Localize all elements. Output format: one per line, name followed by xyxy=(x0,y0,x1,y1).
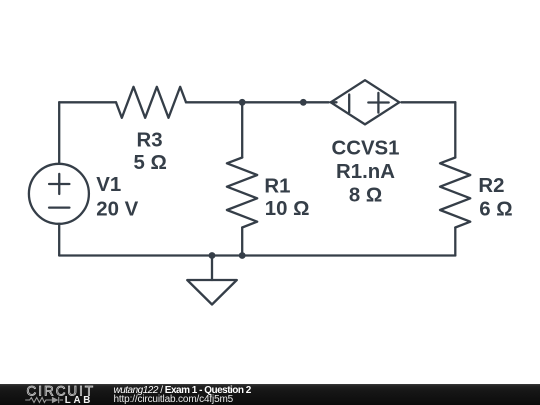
svg-text:8 Ω: 8 Ω xyxy=(349,184,382,206)
ground xyxy=(187,280,237,305)
node junction dot C xyxy=(239,252,246,259)
wire V1 top stem xyxy=(58,102,60,164)
CCVS1 plus sign xyxy=(368,93,388,113)
svg-text:6 Ω: 6 Ω xyxy=(479,198,512,220)
logo circuit glyph xyxy=(25,397,63,403)
resistor R2 xyxy=(440,158,470,228)
resistor R1 xyxy=(227,158,257,228)
svg-text:CCVS1: CCVS1 xyxy=(332,138,400,160)
node junction dot B xyxy=(300,99,307,106)
wire top middle xyxy=(186,101,329,103)
wire R2 bottom stem xyxy=(454,228,456,256)
svg-text:20 V: 20 V xyxy=(96,198,138,220)
node junction dot ground xyxy=(209,252,216,259)
dependent source CCVS1 diamond xyxy=(331,80,400,124)
V1 minus sign xyxy=(49,206,69,208)
wire bottom horizontal xyxy=(59,254,455,256)
svg-text:R1.nA: R1.nA xyxy=(336,161,395,183)
wire R1 bottom stem xyxy=(241,228,243,256)
svg-text:5 Ω: 5 Ω xyxy=(134,152,167,174)
resistor R3 xyxy=(116,87,186,118)
svg-text:R2: R2 xyxy=(478,175,504,197)
wire R2 top stem xyxy=(454,102,456,157)
svg-text:10 Ω: 10 Ω xyxy=(265,198,310,220)
wire ground stem xyxy=(211,256,213,281)
svg-text:R1: R1 xyxy=(264,175,290,197)
wire R1 top stem xyxy=(241,102,243,157)
wire top-right xyxy=(401,101,455,103)
voltage source V1 xyxy=(29,164,89,224)
wire top-left horizontal xyxy=(59,101,116,103)
CCVS1 minus sign xyxy=(331,101,337,103)
wire V1 bottom stem xyxy=(58,224,60,256)
CCVS1 divider bar xyxy=(348,95,350,113)
footer url xyxy=(114,394,234,405)
V1 plus sign xyxy=(49,174,69,194)
svg-text:R3: R3 xyxy=(137,129,163,151)
footer attribution text xyxy=(114,385,251,396)
footer bar xyxy=(0,384,540,405)
svg-text:LAB: LAB xyxy=(65,395,93,405)
svg-text:V1: V1 xyxy=(96,174,121,196)
node junction dot A xyxy=(239,99,246,106)
